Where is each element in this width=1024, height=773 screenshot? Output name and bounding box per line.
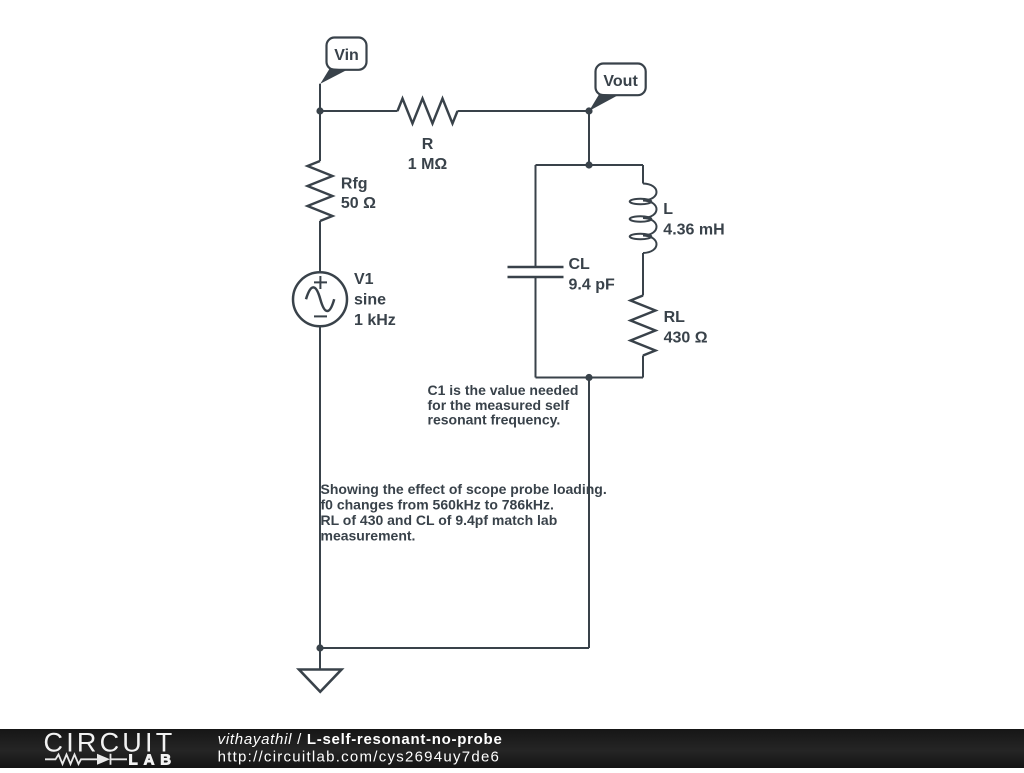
svg-text:Vout: Vout <box>603 73 638 90</box>
svg-text:1 kHz: 1 kHz <box>354 312 396 329</box>
svg-text:http://circuitlab.com/cys2694u: http://circuitlab.com/cys2694uy7de6 <box>218 748 501 765</box>
svg-text:4.36 mH: 4.36 mH <box>663 221 724 238</box>
svg-text:RL of 430 and CL of 9.4pf matc: RL of 430 and CL of 9.4pf match lab <box>321 512 558 528</box>
svg-text:50 Ω: 50 Ω <box>341 195 376 212</box>
svg-text:resonant frequency.: resonant frequency. <box>428 412 561 428</box>
svg-text:C1 is the value needed: C1 is the value needed <box>428 382 579 398</box>
svg-text:sine: sine <box>354 292 386 309</box>
svg-text:Showing the effect of scope pr: Showing the effect of scope probe loadin… <box>321 481 607 497</box>
svg-text:CL: CL <box>569 256 591 273</box>
svg-text:V1: V1 <box>354 271 374 288</box>
svg-text:measurement.: measurement. <box>321 528 416 544</box>
svg-text:f0 changes from 560kHz to 786k: f0 changes from 560kHz to 786kHz. <box>321 497 554 513</box>
svg-text:9.4 pF: 9.4 pF <box>569 276 615 293</box>
svg-text:Vin: Vin <box>334 47 359 64</box>
svg-text:vithayathil / L-self-resonant-: vithayathil / L-self-resonant-no-probe <box>218 731 503 748</box>
svg-text:LAB: LAB <box>129 752 178 769</box>
svg-text:L: L <box>663 201 673 218</box>
svg-text:RL: RL <box>664 309 686 326</box>
svg-text:1 MΩ: 1 MΩ <box>408 156 448 173</box>
svg-text:Rfg: Rfg <box>341 176 368 193</box>
svg-text:R: R <box>422 136 434 153</box>
svg-text:430 Ω: 430 Ω <box>664 329 708 346</box>
svg-text:for the measured self: for the measured self <box>428 397 570 413</box>
